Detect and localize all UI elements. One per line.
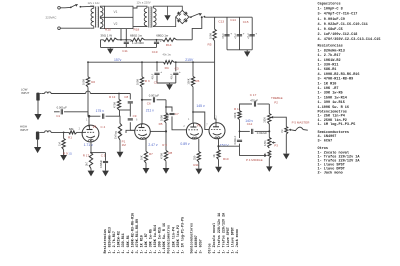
svg-text:3- 470K-R11-R8-R9: 3- 470K-R11-R8-R9 [136, 219, 140, 254]
wire cf out to tone stack [219, 145, 240, 147]
node cathode junction [90, 152, 92, 154]
node V1a plate node [88, 115, 91, 118]
svg-text:C19: C19 [152, 50, 158, 54]
svg-text:2- Jack mono: 2- Jack mono [235, 229, 240, 253]
switch S2 standby [190, 16, 192, 18]
svg-text:R4: R4 [165, 66, 169, 70]
svg-text:470K: 470K [113, 102, 117, 108]
wire C1 to plate node [87, 112, 89, 116]
svg-text:1- 68K-R1: 1- 68K-R1 [127, 235, 131, 253]
wire C6 to R5 [165, 100, 167, 113]
capacitor C19 [156, 40, 158, 42]
capacitor C7 [166, 107, 172, 112]
wire low line corner down [129, 94, 131, 100]
wire box to T2 top [133, 6, 147, 8]
node heater tap junction [120, 39, 122, 41]
svg-text:1- 1M log-P1-P3-P5: 1- 1M log-P1-P3-P5 [180, 217, 185, 254]
transformer T1 secondary winding V1 [100, 7, 103, 16]
svg-text:12v a 220V: 12v a 220V [137, 0, 151, 4]
svg-text:1- 150K 1w-R14: 1- 150K 1w-R14 [154, 225, 158, 254]
svg-text:1- 330-R11: 1- 330-R11 [122, 233, 126, 253]
transformer T2 core [148, 7, 150, 28]
wire filter bottom rail [101, 46, 157, 48]
svg-text:1- Zocalo noval: 1- Zocalo noval [212, 223, 217, 254]
capacitor C6 [142, 99, 151, 101]
ground P5 [283, 154, 290, 160]
svg-text:470pF: 470pF [167, 112, 170, 119]
svg-text:3- 470pf-C7-C16-C17: 3- 470pf-C7-C16-C17 [318, 12, 358, 17]
svg-text:R7: R7 [149, 152, 153, 156]
wire P1 to ground [119, 140, 121, 152]
svg-text:1Ω: 1Ω [68, 152, 71, 156]
svg-text:47uF: 47uF [170, 73, 173, 79]
svg-text:47uF: 47uF [247, 33, 250, 39]
svg-text:V2: V2 [114, 22, 118, 26]
svg-text:175 v: 175 v [96, 109, 105, 113]
svg-text:C1: C1 [56, 114, 60, 118]
potentiometer P3 [268, 131, 270, 137]
svg-text:250K: 250K [263, 117, 266, 123]
capacitor C11 [125, 40, 127, 42]
resistor R7 [144, 151, 147, 163]
svg-text:1- 100pF-C 8: 1- 100pF-C 8 [318, 8, 343, 12]
svg-text:V1: V1 [114, 10, 118, 14]
resistor R10 [218, 146, 220, 150]
svg-text:0.022uF: 0.022uF [257, 131, 268, 135]
svg-text:R10: R10 [223, 157, 229, 161]
wire C2 C3 to ground [157, 82, 176, 84]
ground T2 secondary [167, 6, 169, 15]
svg-text:157v: 157v [114, 58, 122, 62]
transformer T2 secondary winding [153, 8, 156, 26]
transformer T1 primary winding [90, 6, 94, 8]
resistor R8 [165, 131, 167, 150]
wire V1b cathode [145, 138, 147, 152]
svg-text:0.022uF: 0.022uF [234, 135, 237, 144]
wire low input with hops [42, 93, 45, 95]
ground R10 [218, 159, 220, 166]
svg-text:2k7: 2k7 [85, 161, 89, 166]
svg-text:R18: R18 [134, 28, 140, 32]
svg-text:INPUT: INPUT [20, 128, 29, 132]
capacitor C15 [251, 17, 253, 50]
svg-text:1- 1M log-P1-P3-P5: 1- 1M log-P1-P3-P5 [318, 122, 356, 127]
node rail R3 [141, 61, 143, 63]
wire left end of filter chain [101, 39, 104, 41]
node mains terminal L [58, 7, 61, 10]
svg-text:R2: R2 [91, 80, 95, 84]
svg-text:R 13: R 13 [109, 95, 116, 99]
svg-text:4- 1N4007: 4- 1N4007 [195, 235, 199, 253]
node plate junction V1b [141, 99, 143, 101]
wire B+ rail left section [88, 61, 164, 63]
svg-text:140 v: 140 v [245, 119, 253, 123]
wire B+ rail right section [174, 61, 215, 63]
svg-text:1- 820oHm-R13: 1- 820oHm-R13 [109, 227, 113, 253]
svg-text:4- 0.022uF-C1-C6-C10-C11: 4- 0.022uF-C1-C6-C10-C11 [318, 23, 368, 27]
svg-text:+: + [160, 39, 162, 43]
wire R5 to node [165, 123, 167, 132]
wire R15 to R18 [118, 39, 132, 41]
wire low line to R13 [118, 94, 120, 100]
svg-text:39Ω 1 W: 39Ω 1 W [100, 34, 112, 38]
capacitor C10 [239, 144, 241, 147]
ground P1 [117, 152, 124, 158]
transformer T1 secondary winding V2 [100, 18, 103, 27]
svg-text:C3: C3 [175, 66, 179, 70]
node rail R6 [192, 61, 194, 63]
wire R13 C8 bottom join [119, 109, 130, 111]
heater box to tubes V1 V2 [105, 6, 134, 28]
svg-text:40v 1w: 40v 1w [163, 53, 171, 57]
svg-text:+: + [230, 32, 232, 36]
svg-text:1- 820oHm-R13: 1- 820oHm-R13 [318, 49, 345, 53]
capacitor C5 [105, 153, 107, 161]
tube V1a [82, 125, 99, 142]
svg-text:1K: 1K [212, 154, 216, 157]
svg-text:1M log: 1M log [114, 131, 118, 139]
svg-text:1M: 1M [122, 143, 127, 147]
resistor R5 [164, 113, 167, 123]
wire V2a cathode [198, 139, 200, 152]
capacitor C4 [102, 114, 104, 119]
node C7 tap [165, 106, 167, 108]
svg-text:680Ω 1w: 680Ω 1w [156, 34, 169, 38]
svg-text:12v x 12v: 12v x 12v [88, 1, 101, 5]
svg-text:C 4: C 4 [101, 125, 106, 129]
svg-text:1- 250K lin-P2: 1- 250K lin-P2 [176, 225, 181, 254]
svg-text:C2: C2 [154, 80, 158, 84]
wire box to T2 bottom [133, 25, 147, 28]
jack J2 high input [36, 132, 39, 140]
svg-text:220VAC: 220VAC [46, 15, 58, 19]
node C19 top [156, 39, 158, 41]
svg-text:4- 100K-R2-R3-R6-R16: 4- 100K-R2-R3-R6-R16 [318, 73, 360, 77]
svg-text:Resistencias: Resistencias [318, 44, 343, 49]
ground jack J2 [37, 140, 39, 147]
svg-text:1.71 v: 1.71 v [84, 143, 94, 147]
resistor R1 [69, 131, 77, 134]
tube V1b [135, 124, 151, 140]
resistor R3 plate [141, 62, 143, 77]
resistor R13 [117, 99, 120, 110]
wire B+ down to filter chain [192, 17, 202, 40]
svg-text:C6: C6 [147, 101, 151, 105]
wiper P2 [271, 116, 274, 119]
wiper P5 to output squiggle [289, 129, 291, 131]
resistor R2 plate [87, 62, 89, 77]
svg-text:Capacitores: Capacitores [318, 2, 341, 7]
potentiometer P5 master [285, 127, 288, 135]
svg-text:1-100K 5w- R 16: 1-100K 5w- R 16 [163, 223, 167, 254]
capacitor C13 [226, 17, 228, 50]
wire bass line [240, 130, 250, 132]
node cathode follower out [217, 145, 219, 147]
potentiometer P2 treble [268, 104, 270, 114]
svg-text:C8: C8 [124, 95, 128, 99]
svg-text:Potenciometros: Potenciometros [167, 225, 172, 254]
svg-text:0.001uF: 0.001uF [149, 93, 160, 97]
node rail C3 [175, 61, 177, 63]
svg-text:153 V: 153 V [220, 143, 230, 147]
svg-text:1- 68K-R1: 1- 68K-R1 [318, 68, 337, 72]
capacitor C17 [253, 101, 255, 106]
svg-text:P3: P3 [274, 143, 278, 147]
svg-text:R1: R1 [68, 135, 72, 139]
resistor R15 [103, 38, 117, 41]
svg-text:+: + [179, 70, 181, 74]
svg-text:1- 2.7k-R17: 1- 2.7k-R17 [112, 231, 117, 253]
svg-text:470K: 470K [264, 140, 267, 146]
tube V2b cathode follower [209, 123, 225, 139]
node rail C2 [156, 61, 158, 63]
svg-text:1 uF/400: 1 uF/400 [132, 41, 144, 45]
svg-text:100K: 100K [208, 33, 212, 39]
svg-text:R11: R11 [193, 163, 199, 167]
svg-text:R5: R5 [208, 42, 212, 46]
svg-text:100K: 100K [187, 78, 191, 84]
jack J1 low input [36, 93, 39, 101]
svg-text:0.68uF: 0.68uF [99, 160, 103, 168]
capacitor C2 [156, 62, 158, 71]
potentiometer P4 middle [268, 151, 271, 159]
wire mains N to T1 primary [60, 27, 90, 29]
wire R14 to bridge node [177, 39, 193, 41]
svg-text:1- 2.7k-R17: 1- 2.7k-R17 [318, 53, 341, 58]
svg-text:1- 10K -R7: 1- 10K -R7 [145, 233, 149, 253]
svg-text:1- Llave SPST: 1- Llave SPST [226, 227, 231, 253]
svg-text:C15: C15 [243, 20, 249, 24]
svg-text:1-100K 5w- R 16: 1-100K 5w- R 16 [318, 106, 350, 110]
resistor R16 [214, 17, 216, 29]
ground jack J1 [37, 101, 39, 114]
capacitor C14 [239, 17, 241, 50]
svg-text:R 17: R 17 [83, 153, 90, 157]
svg-text:1- Trafos 220/12v 1A: 1- Trafos 220/12v 1A [217, 212, 222, 254]
wire V1a cathode [90, 139, 92, 153]
wire reservoir bottom rail [227, 49, 252, 51]
svg-text:P2: P2 [274, 101, 278, 105]
wire standby to B+ node [204, 16, 252, 19]
capacitor C3 [175, 62, 177, 71]
node bass pot top [268, 130, 270, 132]
wire C4 to volume [106, 116, 120, 123]
resistor R12 [238, 111, 241, 120]
ground R8 [165, 161, 167, 168]
potentiometer P1 [118, 123, 121, 140]
transformer T1 core [95, 7, 97, 28]
svg-text:1- 390 1w-R15: 1- 390 1w-R15 [159, 227, 163, 253]
wire cathode to C5 [91, 152, 106, 154]
resistor R11 [197, 152, 200, 162]
wiper P4 arrow [264, 154, 267, 157]
node mains terminal N [58, 27, 61, 30]
svg-text:+: + [255, 32, 257, 36]
wire P4 bottom to ground [268, 158, 270, 166]
capacitor C1 [54, 111, 60, 113]
svg-text:1- 1K R10: 1- 1K R10 [140, 235, 144, 253]
svg-text:C9: C9 [133, 114, 137, 118]
wire node to V1b [150, 130, 166, 132]
wire rail to V2b plate [215, 62, 216, 123]
svg-text:INPUT: INPUT [21, 91, 30, 95]
ground C2 C3 [169, 83, 171, 84]
resistor R4 [164, 61, 175, 64]
svg-text:R5: R5 [159, 122, 163, 126]
wire switch to T1 primary [60, 6, 70, 8]
svg-text:4- 100K-R2-R3-R6-R16: 4- 100K-R2-R3-R6-R16 [131, 213, 135, 254]
ground reservoir [246, 50, 248, 52]
svg-text:C14: C14 [230, 18, 236, 22]
wire middle wiper line [240, 146, 265, 155]
svg-text:3- 470K-R11-R8-R9: 3- 470K-R11-R8-R9 [318, 78, 354, 82]
svg-text:P 4 MIDDLE: P 4 MIDDLE [246, 158, 263, 162]
wire heater box drop 2 [125, 29, 127, 40]
svg-text:R 3: R 3 [145, 79, 150, 83]
wire plate node to C4 [89, 115, 100, 117]
capacitor C16 bass [251, 129, 253, 134]
svg-text:1- 0.68uF-C5: 1- 0.68uF-C5 [318, 28, 343, 32]
wiper P3 [272, 141, 274, 143]
ground R9 [60, 155, 67, 161]
svg-text:47uF: 47uF [152, 73, 155, 79]
svg-text:Semiconductores: Semiconductores [189, 223, 194, 254]
svg-text:100K: 100K [136, 79, 140, 85]
svg-text:1- Llave DPDT: 1- Llave DPDT [230, 227, 235, 253]
svg-text:1- 150K 1w-R14: 1- 150K 1w-R14 [318, 96, 347, 100]
svg-text:V2: V2 [197, 124, 201, 128]
svg-text:TREBLE: TREBLE [271, 96, 283, 100]
svg-text:100K: 100K [160, 115, 164, 121]
svg-text:1- 0.001uF-C9: 1- 0.001uF-C9 [318, 18, 345, 22]
capacitor C9 [129, 110, 131, 117]
wire V2b cathode [218, 139, 220, 147]
svg-text:100K: 100K [233, 112, 237, 118]
svg-text:1- 10K1W-R2: 1- 10K1W-R2 [118, 231, 122, 253]
transformer T2 primary winding [144, 8, 147, 26]
bridge rectifier D1-D4 [176, 10, 189, 23]
svg-text:10K: 10K [140, 155, 144, 160]
parts list right [318, 2, 381, 176]
ground filter rail [109, 47, 111, 48]
svg-text:C11: C11 [122, 49, 128, 53]
svg-text:1- 39K 1w-R5: 1- 39K 1w-R5 [150, 229, 154, 253]
svg-text:1- 10K1W-R2: 1- 10K1W-R2 [318, 59, 341, 63]
svg-text:47uF: 47uF [235, 33, 238, 39]
svg-text:C13: C13 [218, 20, 224, 24]
svg-text:330: 330 [192, 155, 196, 160]
svg-text:2.47 v: 2.47 v [148, 143, 158, 147]
svg-text:0.001uF: 0.001uF [57, 106, 68, 110]
svg-text:145 v: 145 v [196, 104, 205, 108]
node divider [165, 130, 167, 132]
resistor R17 [89, 153, 92, 169]
svg-text:R14: R14 [166, 43, 172, 47]
wire R18 to R14 [145, 39, 163, 41]
svg-text:+: + [160, 70, 162, 74]
wire P2 bottom to bass node [268, 124, 270, 131]
svg-text:R15: R15 [105, 28, 111, 32]
svg-text:1- 330-R11: 1- 330-R11 [318, 64, 339, 68]
svg-text:1- 10K -R7: 1- 10K -R7 [318, 87, 339, 91]
wire heater box drop 1 [120, 29, 122, 40]
resistor R18 [131, 38, 145, 41]
capacitor C8 [128, 101, 133, 103]
svg-text:1- 1K R10: 1- 1K R10 [318, 82, 337, 86]
svg-text:P 5 MASTER: P 5 MASTER [292, 120, 311, 124]
svg-text:V1: V1 [93, 125, 97, 129]
wire plate node down to V1a [88, 116, 90, 127]
ground P4 [266, 166, 272, 171]
svg-text:2- 1uF/100v-C12-C18: 2- 1uF/100v-C12-C18 [318, 32, 358, 37]
ground R11 [198, 162, 200, 169]
svg-text:100K: 100K [82, 79, 86, 85]
tube V2a [186, 123, 202, 139]
svg-text:+: + [243, 32, 245, 36]
wire bridge to standby switch [189, 16, 190, 18]
wire P5 to ground [285, 134, 287, 153]
parts list rotated bottom left [103, 212, 240, 254]
node high input junction [63, 132, 65, 134]
svg-text:470K: 470K [160, 153, 164, 159]
resistor R6 plate [192, 62, 194, 76]
svg-text:C 17: C 17 [250, 93, 257, 97]
svg-text:1M: 1M [57, 142, 61, 146]
svg-text:47uF: 47uF [222, 33, 225, 39]
svg-text:Otros: Otros [208, 243, 213, 253]
svg-text:Resistencias: Resistencias [103, 229, 108, 253]
resistor R9 grid leak [63, 132, 65, 138]
ground R17 [90, 169, 92, 171]
wiper P1 [119, 132, 121, 134]
node rail R2 [87, 61, 89, 63]
wire V2a plate to V2b grid [193, 112, 209, 130]
svg-text:1- 390 1w-R15: 1- 390 1w-R15 [318, 101, 345, 105]
svg-text:1M: 1M [281, 130, 284, 133]
svg-text:680Ω 1w: 680Ω 1w [130, 34, 143, 38]
svg-text:211 v: 211 v [146, 108, 154, 112]
svg-text:4- 47Uf/350V-C2-C3-C13-C14-C15: 4- 47Uf/350V-C2-C3-C13-C14-C15 [318, 37, 381, 42]
svg-text:1- 25K lin-P4: 1- 25K lin-P4 [171, 227, 176, 253]
svg-text:C7: C7 [175, 112, 179, 116]
switch S1 mains [70, 7, 72, 9]
svg-text:R8: R8 [168, 151, 172, 155]
svg-text:R 9: R 9 [162, 143, 167, 147]
svg-text:2- Jack mono: 2- Jack mono [318, 170, 343, 175]
wire high input with hops [41, 131, 45, 133]
wire R12 top to C17 [240, 104, 253, 111]
wire R1 to V1a grid [77, 131, 85, 133]
svg-text:3- 6CG7: 3- 6CG7 [200, 239, 204, 253]
svg-text:1- Trafos 220/12V 2A: 1- Trafos 220/12V 2A [221, 212, 226, 254]
resistor R14 [163, 38, 177, 41]
ground C5 [105, 169, 107, 171]
svg-text:3- 6CG7: 3- 6CG7 [318, 139, 333, 143]
ground R7 [145, 163, 147, 168]
svg-text:68k: 68k [69, 127, 74, 131]
svg-text:R6: R6 [195, 79, 199, 83]
svg-text:0.89 v: 0.89 v [180, 142, 190, 146]
svg-text:1- 39K 1w-R5: 1- 39K 1w-R5 [318, 92, 343, 96]
